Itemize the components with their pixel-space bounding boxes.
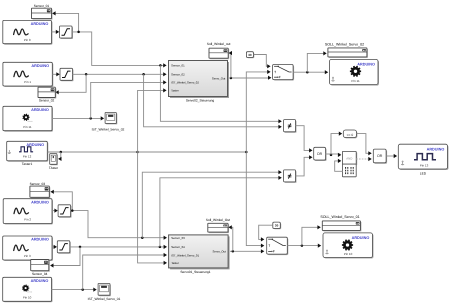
constant 30 bottom — [273, 222, 281, 229]
svg-text:Soll_Winkel_Out: Soll_Winkel_Out — [206, 218, 230, 222]
svg-text:<= 0: <= 0 — [347, 133, 354, 137]
svg-text:Sensor_01: Sensor_01 — [34, 4, 50, 8]
display Sensor_03 — [30, 186, 50, 198]
display Sensor_01 — [32, 8, 53, 19]
wire Sensor_02 branch to display Sensor_02 — [55, 74, 86, 94]
logical operator OR1 — [314, 147, 327, 161]
wire saturation1 output to display Sensor_01 — [52, 11, 78, 32]
label Servo01_Steuerung1 — [180, 270, 210, 274]
svg-text:IST_Winkel_Servo_01: IST_Winkel_Servo_01 — [88, 297, 121, 301]
wire Servo_Out branch to display Soll_Winkel_out — [229, 51, 232, 78]
wire IST_Winkel_Servo_02 branch to Servo02 in3 — [91, 80, 167, 118]
wire Taster1 output net — [47, 151, 139, 154]
wire Pin 3 to saturation4 — [52, 245, 57, 249]
wire Sensor_03 branch to neq2 input1 — [142, 170, 281, 238]
wire Sensor_04 net to Servo01 in2 — [70, 245, 167, 249]
arduino digital output Pin 13 LED — [398, 144, 448, 170]
wire Taster branch to display TAster — [58, 152, 61, 161]
svg-text:IST_Winkel_Servo_02: IST_Winkel_Servo_02 — [171, 81, 199, 85]
logic block AND — [342, 151, 357, 165]
svg-text:30: 30 — [275, 223, 279, 227]
wire IST_Winkel_Servo_01 branch to Servo01 in3 — [83, 253, 167, 290]
arduino analog input Pin 2 — [3, 199, 53, 225]
svg-text:ARDUINO: ARDUINO — [31, 238, 49, 242]
wire switch2 branch to display SOLL_Winkel_Servo_01 — [302, 225, 321, 245]
wire Sensor_03 net to Servo01 in1 — [71, 209, 167, 239]
svg-text:Sensor_02: Sensor_02 — [171, 73, 185, 77]
wire switch1 branch to display SOLL_Winkel_Servo_02 — [307, 51, 326, 72]
saturation Saturation4 — [57, 241, 71, 254]
label Sensor_01 — [34, 4, 50, 8]
wire neq2 to OR1 in2 — [296, 155, 313, 176]
svg-text:Sensor_03: Sensor_03 — [30, 182, 46, 186]
wire Sensor_04 branch to neq2 input2 — [160, 176, 282, 247]
arduino analog input Pin 3 — [3, 236, 53, 261]
label Servo02_Steuerung — [186, 99, 215, 103]
display IST_Winkel_Servo_02 — [105, 113, 117, 125]
svg-text:IST_Winkel_Servo_01: IST_Winkel_Servo_01 — [171, 253, 199, 257]
wire Pin 11 to display IST_Winkel_Servo_02 and Servo02 in3 — [52, 116, 104, 120]
svg-text:ARDUINO: ARDUINO — [357, 62, 375, 66]
arduino analog input Pin 1 — [3, 62, 53, 87]
svg-text:Pin 13: Pin 13 — [420, 163, 429, 167]
svg-text:Sensor_03: Sensor_03 — [171, 236, 185, 240]
svg-text:SOLL_Winkel_Servo_02: SOLL_Winkel_Servo_02 — [325, 43, 364, 47]
svg-text:Taster: Taster — [171, 89, 179, 93]
arduino servo write Pin 10 block — [323, 233, 374, 259]
svg-text:Pin 10: Pin 10 — [23, 296, 32, 300]
svg-text:Servo: Servo — [27, 291, 33, 294]
svg-text:Pin 2: Pin 2 — [24, 218, 31, 222]
arduino analog input Pin 0 — [3, 20, 53, 44]
display TAster — [50, 154, 58, 166]
wire OR1 output to AND in1 — [326, 153, 342, 157]
wire saturation3 branch to display Sensor_03 — [50, 190, 72, 211]
display Soll_Winkel_Out bottom — [208, 223, 229, 233]
svg-text:TAster: TAster — [49, 166, 59, 170]
svg-text:Pin 10: Pin 10 — [344, 252, 353, 256]
svg-text:Pin 12: Pin 12 — [23, 155, 32, 159]
svg-text:Pin 1: Pin 1 — [24, 80, 31, 84]
wire Servo01 Servo_Out net — [230, 249, 264, 253]
label Taster1 — [22, 162, 33, 166]
svg-text:Pin 3: Pin 3 — [24, 254, 31, 258]
display IST_Winkel_Servo_01 — [98, 284, 111, 297]
label Sensor_03 — [30, 182, 46, 186]
svg-text:IST_Winkel_Servo_02: IST_Winkel_Servo_02 — [92, 127, 125, 131]
wire Servo_Out branch to display Soll_Winkel_Out — [228, 225, 232, 251]
wire Taster control to switch1 — [246, 70, 270, 152]
svg-text:Soll_Winkel_out: Soll_Winkel_out — [207, 42, 231, 46]
wire Sensor_02 net to Servo02 in2 — [73, 72, 167, 76]
svg-text:Sensor_04: Sensor_04 — [32, 272, 48, 276]
arduino servo write Pin 11 block — [330, 59, 380, 85]
saturation Saturation1 — [60, 26, 74, 39]
wire Sensor_01 net to Servo02 in1 — [72, 31, 167, 68]
wire Pin 10 to display IST_Winkel_Servo_01 and Servo01 in3 — [52, 288, 97, 292]
wire Sensor_02 branch to neq1 input2 — [144, 74, 282, 129]
label TAster — [49, 166, 59, 170]
wire Sensor_04 branch to display Sensor_04 — [50, 247, 80, 268]
svg-text:Taster1: Taster1 — [22, 162, 33, 166]
svg-text:ARDUINO: ARDUINO — [427, 147, 445, 151]
svg-text:SOLL_Winkel_Servo_01: SOLL_Winkel_Servo_01 — [320, 215, 359, 219]
subsystem Servo02_Steuerung — [169, 61, 230, 99]
svg-text:Sensor_04: Sensor_04 — [171, 245, 185, 249]
wire compare to OR2 in1 — [357, 134, 372, 156]
svg-text:AND: AND — [346, 156, 352, 160]
svg-text:30: 30 — [248, 53, 252, 57]
svg-text:ARDUINO: ARDUINO — [31, 200, 49, 204]
wire constant to switch1 in1 — [253, 55, 270, 69]
svg-text:Pin 0: Pin 0 — [24, 38, 31, 42]
wire switch2 output net — [287, 244, 321, 248]
display SOLL_Winkel_Servo_02 — [328, 48, 368, 58]
label LED — [420, 171, 427, 175]
switch Switch2 — [267, 237, 289, 255]
label SOLL_Winkel_Servo_01 — [320, 215, 359, 219]
svg-text:ARDUINO: ARDUINO — [31, 108, 49, 112]
wire counter feedback to AND in2 — [335, 159, 343, 172]
svg-text:Pin 11: Pin 11 — [23, 125, 32, 129]
svg-text:ARDUINO: ARDUINO — [31, 64, 49, 68]
svg-text:Servo02_Steuerung: Servo02_Steuerung — [186, 99, 215, 103]
counter block — [342, 164, 356, 177]
arduino servo read Pin 11 — [3, 106, 53, 131]
svg-text:Taster: Taster — [171, 261, 179, 265]
svg-text:ARDUINO: ARDUINO — [31, 279, 49, 283]
label IST_Winkel_Servo_01 — [88, 297, 121, 301]
svg-text:OR: OR — [377, 154, 383, 158]
arduino servo read Pin 10 — [3, 277, 53, 302]
relational operator neq2 — [284, 170, 297, 183]
label Sensor_04 — [32, 272, 48, 276]
svg-text:ARDUINO: ARDUINO — [31, 22, 49, 26]
relational operator neq1 — [284, 120, 297, 133]
wire Taster to Servo01 in4 — [138, 152, 167, 265]
compare to zero block — [343, 130, 357, 138]
wire switch1 output net — [293, 70, 328, 74]
wire OR1 branch to compare block — [331, 132, 342, 155]
label Soll_Winkel_out — [207, 42, 231, 46]
label SOLL_Winkel_Servo_02 — [325, 43, 364, 47]
wire constant2 to switch2 in1 — [259, 225, 273, 241]
subsystem Servo01_Steuerung1 — [169, 235, 230, 270]
wire Sensor_01 branch to neq1 input1 — [160, 65, 281, 123]
wire OR2 to LED block — [386, 154, 397, 158]
svg-text:Servo: Servo — [27, 120, 33, 123]
svg-text:OR: OR — [317, 152, 323, 156]
svg-text:Servo_Out: Servo_Out — [213, 250, 227, 254]
display Sensor_04 — [31, 260, 50, 272]
wire Pin 0 to saturation1 — [52, 30, 60, 34]
label IST_Winkel_Servo_02 — [92, 127, 125, 131]
saturation Saturation3 — [58, 205, 72, 218]
switch Switch1 — [273, 65, 295, 81]
saturation Saturation2 — [60, 68, 74, 81]
wire Pin 2 to saturation3 — [52, 209, 58, 213]
svg-text:Sensor_02: Sensor_02 — [39, 99, 55, 103]
label Sensor_02 — [39, 99, 55, 103]
logical operator OR2 — [373, 149, 387, 164]
svg-text:Servo01_Steuerung1: Servo01_Steuerung1 — [180, 270, 210, 274]
svg-text:ARDUINO: ARDUINO — [352, 236, 370, 240]
display Soll_Winkel_out — [209, 48, 229, 59]
wire Servo02 Servo_Out net — [230, 76, 272, 80]
svg-text:LED: LED — [420, 171, 427, 175]
wire Taster to switch controls — [138, 151, 248, 154]
svg-text:Pin 11: Pin 11 — [351, 79, 360, 83]
label Soll_Winkel_Out bottom — [206, 218, 230, 222]
display SOLL_Winkel_Servo_01 — [322, 221, 361, 232]
constant 30 top — [246, 52, 254, 59]
display Sensor_02 — [38, 87, 56, 98]
svg-text:Sensor_01: Sensor_01 — [171, 64, 185, 68]
svg-text:Servo_Out: Servo_Out — [212, 76, 226, 80]
wire Pin 1 to saturation2 — [52, 72, 59, 76]
wire AND to OR2 in2 dashed — [356, 157, 372, 161]
arduino digital input Pin 12 Taster1 — [7, 141, 49, 162]
wire Taster control to switch2 — [246, 152, 264, 248]
wire neq1 to OR1 in1 — [296, 126, 313, 153]
wire Taster to Servo02 in4 — [138, 88, 167, 152]
